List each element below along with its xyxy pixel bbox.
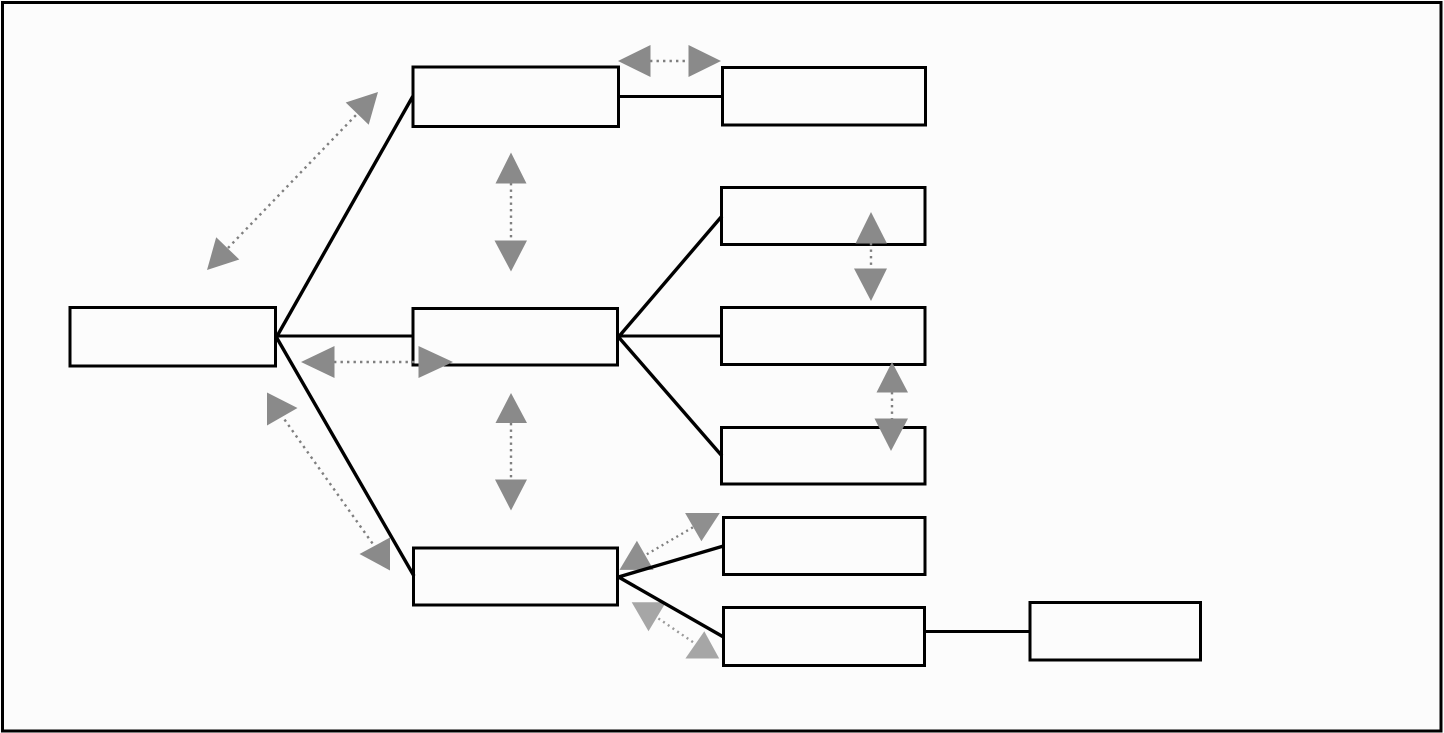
double arrow 4 (C-D vertical) bbox=[495, 393, 527, 511]
double arrow 6 (B-E horizontal) bbox=[618, 45, 721, 77]
wire C to F (diagonal) bbox=[619, 216, 723, 337]
box K (far right) bbox=[1030, 603, 1201, 661]
box F (right column 1) bbox=[722, 188, 926, 245]
wire B to E (horizontal) bbox=[620, 95, 722, 98]
box G (right column 2) bbox=[722, 308, 926, 365]
double arrow 5 (A-D diagonal, horizontal heads) bbox=[267, 393, 390, 571]
wire J to K (horizontal) bbox=[926, 630, 1030, 633]
double arrow 9 (D-I diagonal, vertical heads) bbox=[620, 513, 720, 570]
box B (top middle) bbox=[413, 67, 619, 127]
double arrow 8 (G-H vertical) bbox=[875, 362, 909, 451]
wire C to G (horizontal) bbox=[619, 335, 723, 338]
box E (top right) bbox=[723, 68, 926, 126]
wire A to C (horizontal) bbox=[276, 335, 413, 338]
wire D to I (diagonal) bbox=[619, 546, 724, 577]
double arrow 2 (A-C horizontal) bbox=[301, 346, 453, 378]
box J (lower right lower) bbox=[724, 608, 925, 666]
double arrow 3 (B-C vertical) bbox=[495, 153, 528, 272]
wire A to B (diagonal) bbox=[276, 96, 413, 338]
box D (bottom middle) bbox=[414, 548, 618, 605]
wire C to H (diagonal) bbox=[619, 337, 723, 456]
box I (lower right upper) bbox=[724, 518, 926, 575]
double arrow 7 (F-G vertical) bbox=[854, 212, 887, 301]
box H (right column 3) bbox=[722, 428, 926, 485]
wire A to D (diagonal) bbox=[276, 337, 414, 577]
box C (center middle) bbox=[413, 309, 618, 366]
double arrow 10 (D-J diagonal, vertical heads, light) bbox=[632, 602, 720, 658]
box A (left root) bbox=[70, 308, 276, 367]
wire D to J (diagonal) bbox=[619, 577, 724, 637]
double arrow 1 (A-B diagonal, rotated heads) bbox=[207, 92, 378, 270]
